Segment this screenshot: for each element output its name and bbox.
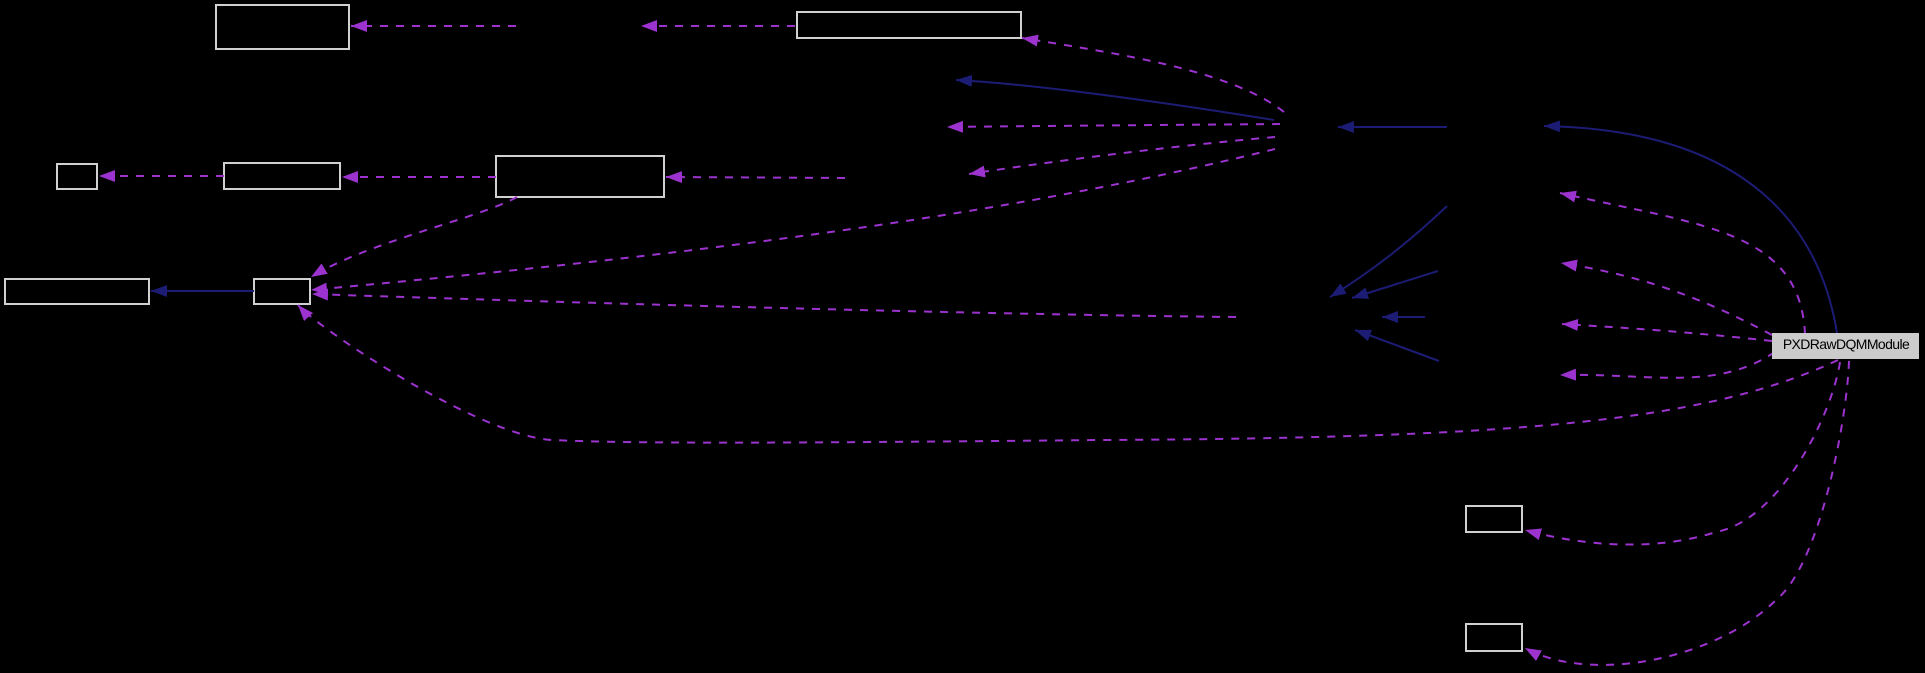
- edge P8 dashed into box5: [666, 177, 845, 178]
- node box9 (bottom right): [1466, 624, 1522, 651]
- edge BL1 blue: [956, 80, 1274, 120]
- edge P6 dashed long curve to box7: [311, 149, 1275, 290]
- edge P7 dashed diagonal box5 to box7: [311, 197, 517, 277]
- node PXDRawDQMModule (grey): [1772, 333, 1919, 359]
- edge BL4 blue curve: [1330, 206, 1447, 297]
- edge BL5 blue: [1352, 271, 1438, 298]
- edge P16 dashed fan4: [1560, 352, 1775, 378]
- edge BL8 blue box7 to box6: [151, 290, 254, 292]
- node box2 (top-middle): [797, 12, 1021, 38]
- node box7: [254, 279, 310, 304]
- edge BL7 blue: [1355, 330, 1439, 361]
- edge P4 dashed horizontal: [947, 124, 1280, 127]
- edge P9 dashed box5 to box4: [342, 176, 496, 178]
- edge P13 dashed fan1: [1560, 193, 1805, 334]
- edge P10 dashed box4 to box3: [99, 175, 224, 177]
- edge P11 dashed long horizontal to box7: [312, 294, 1236, 317]
- edge BL2 blue horizontal: [1338, 126, 1447, 128]
- node box8 (bottom right): [1466, 506, 1522, 532]
- edge P15 dashed fan3: [1562, 324, 1772, 341]
- node box1 (top-left, 2-line): [216, 5, 349, 49]
- node box4: [224, 163, 340, 189]
- node box3 (small left): [57, 164, 97, 189]
- edge P14 dashed fan2: [1561, 263, 1772, 335]
- edge P2 dashed from box2: [641, 25, 795, 27]
- edge P17 dashed curve to box8: [1525, 362, 1840, 545]
- edge P12 dashed big bottom arc grey node to box7: [298, 305, 1838, 443]
- node box6: [5, 279, 149, 304]
- edge P18 dashed curve to box9: [1525, 361, 1849, 665]
- edge P3 dashed curve into box2 corner: [1022, 38, 1284, 112]
- edge BL3 blue big curve from grey node: [1544, 126, 1837, 333]
- edge BL6 blue short horizontal: [1382, 316, 1425, 318]
- node box5 (2-line): [496, 156, 664, 197]
- edge P5 dashed: [969, 137, 1275, 174]
- edge P1 dashed into box1: [351, 25, 516, 27]
- svg-text:PXDRawDQMModule: PXDRawDQMModule: [1783, 336, 1910, 352]
